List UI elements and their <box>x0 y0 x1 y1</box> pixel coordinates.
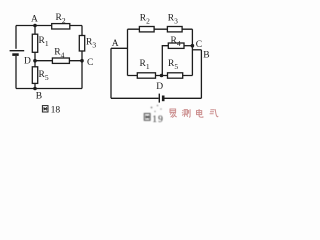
node C fig18 <box>80 59 84 63</box>
wire fig19 terminal A stub <box>111 47 128 49</box>
resistor R1 fig18 <box>32 34 37 52</box>
wire fig19 right rail (corner to C to R5 row) <box>191 29 193 75</box>
wire fig18 right (corner to C to bottom corner) <box>81 26 83 89</box>
battery G1 fig18 long plate <box>10 50 25 52</box>
node D fig18 <box>33 59 37 63</box>
wire fig19 R4 branch left corner <box>162 46 168 76</box>
node D fig19 <box>160 74 164 78</box>
watermark char 电 <box>197 109 203 117</box>
watermark char 测 <box>182 109 190 117</box>
wire fig19 top (R2 R3 series) <box>128 28 193 30</box>
node B fig18 <box>33 87 37 91</box>
svg-text:A: A <box>31 14 38 24</box>
resistor R5 fig18 <box>32 67 37 84</box>
node A fig18 <box>33 24 37 28</box>
wire fig18 top (A to top-right corner) <box>16 25 82 27</box>
resistor R5 fig19 <box>168 73 183 78</box>
wire fig19 bottom right (battery to corner) <box>164 97 201 99</box>
resistor R4 fig18 <box>52 58 69 63</box>
svg-text:B: B <box>36 92 42 102</box>
resistor R2 fig19 <box>139 27 154 32</box>
watermark char 易 <box>170 109 177 118</box>
wire fig18 A to D vertical <box>34 26 36 61</box>
wire fig18 bottom <box>16 88 82 90</box>
svg-text:D: D <box>24 57 31 67</box>
svg-text:B: B <box>203 51 209 61</box>
resistor R2 fig18 <box>52 24 70 29</box>
battery G1 fig18 short plate <box>12 53 18 56</box>
wire fig19 outer right edge <box>200 50 202 99</box>
svg-text:18: 18 <box>51 104 61 115</box>
node C fig19 <box>191 44 195 48</box>
svg-text:C: C <box>87 58 93 68</box>
svg-text:A: A <box>112 39 119 49</box>
resistor R3 fig19 <box>167 27 182 32</box>
wire fig19 R4 to C <box>184 45 192 47</box>
battery G2 fig19 short plate <box>162 96 165 102</box>
wire fig18 left upper (corner to battery) <box>15 26 17 49</box>
wire fig19 outer left edge <box>110 48 112 98</box>
resistor R3 fig18 <box>79 36 84 52</box>
wire fig19 R1 R5 row <box>128 75 193 77</box>
caption fig18 "图 18" <box>42 106 48 112</box>
caption fig19 "图19" (smudged) <box>144 105 164 125</box>
watermark char 气 <box>210 109 218 117</box>
battery G2 fig19 long plate <box>158 94 160 103</box>
wire fig19 bottom left (to battery) <box>111 97 159 99</box>
wire fig19 inner left rail <box>127 29 129 75</box>
svg-text:D: D <box>156 82 163 92</box>
wire fig18 D to C horizontal <box>35 60 82 62</box>
svg-text:19: 19 <box>152 115 164 125</box>
wire fig19 C to B corner <box>192 49 201 51</box>
svg-text:C: C <box>196 40 202 50</box>
resistor R1 fig19 <box>137 73 155 78</box>
resistor R4 fig19 <box>168 43 184 48</box>
wire fig18 left lower (battery to bottom corner) <box>15 56 17 89</box>
watermark 易测电气 (faded red, drawn glyphs) <box>170 109 218 118</box>
wire fig18 D to B vertical <box>34 61 36 89</box>
